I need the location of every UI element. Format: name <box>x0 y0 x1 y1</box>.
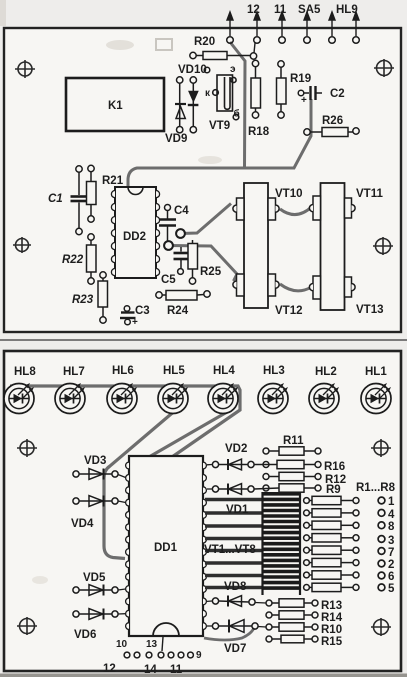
LED HL5 <box>158 383 188 414</box>
mount hole mid-right <box>373 237 393 255</box>
resistor R16 <box>254 460 321 468</box>
pin circle 1 <box>378 497 385 504</box>
resistor R8 <box>304 583 359 591</box>
svg-text:R10: R10 <box>321 624 342 636</box>
relay K1 <box>66 78 164 131</box>
IC DD2 <box>115 187 156 278</box>
transistor pair VT10/VT12 package <box>233 183 279 308</box>
lead DD1 to VD2 row1 <box>207 464 212 466</box>
diode VD2 row2 <box>212 484 254 495</box>
transistor VT9 <box>213 75 239 120</box>
resistor R22 <box>87 234 97 284</box>
capacitor C4 <box>159 205 176 242</box>
svg-text:VD10: VD10 <box>178 64 207 76</box>
svg-text:R11: R11 <box>283 435 304 447</box>
diode VD7 <box>212 620 258 633</box>
LED HL2 <box>309 383 339 414</box>
mount hole b2 bottom-left <box>17 617 37 635</box>
LED HL4 <box>208 383 238 414</box>
capacitor C2 <box>298 86 322 100</box>
svg-text:б: б <box>234 108 240 120</box>
svg-text:HL2: HL2 <box>315 366 337 378</box>
diode VD10 <box>188 77 199 133</box>
svg-text:VT1...VT8: VT1...VT8 <box>204 544 256 556</box>
svg-text:R25: R25 <box>200 266 222 278</box>
svg-text:VT11: VT11 <box>356 188 383 200</box>
svg-text:R16: R16 <box>324 461 345 473</box>
transistor pair VT11/VT13 package <box>309 183 355 310</box>
svg-text:VT13: VT13 <box>356 304 384 316</box>
resistor R12 <box>263 472 321 480</box>
mount hole mid-left <box>13 237 31 253</box>
diode VD6 <box>73 609 118 620</box>
svg-text:+: + <box>132 317 138 328</box>
solder pad node A <box>176 229 185 238</box>
svg-text:э: э <box>230 64 236 75</box>
lead DD1 to VD7 <box>207 625 212 627</box>
pin circle 6 <box>378 572 385 579</box>
resistor R21 <box>87 165 97 222</box>
svg-text:13: 13 <box>146 639 158 650</box>
DD1 notch <box>153 623 179 636</box>
svg-text:VT9: VT9 <box>209 120 230 132</box>
mount hole b2 top-right <box>371 439 391 457</box>
svg-text:3: 3 <box>388 535 394 547</box>
diode VD8 <box>212 596 255 607</box>
svg-text:VD7: VD7 <box>224 643 246 655</box>
svg-text:R22: R22 <box>62 254 84 266</box>
svg-text:R21: R21 <box>102 175 124 187</box>
resistor R19 <box>277 61 287 118</box>
DD1 pins right <box>203 462 206 629</box>
pin circle 7 <box>378 548 385 555</box>
lead DD1 pin 13 <box>162 637 163 651</box>
svg-text:HL8: HL8 <box>14 366 36 378</box>
svg-text:DD1: DD1 <box>154 542 178 554</box>
bottom scan strip <box>0 674 407 677</box>
lead VD7 to R10 <box>258 626 266 629</box>
mount hole top-left <box>15 60 35 78</box>
svg-text:C5: C5 <box>161 274 176 286</box>
resistor R24 <box>156 291 210 301</box>
svg-text:VD1: VD1 <box>226 504 249 516</box>
svg-text:VD9: VD9 <box>165 133 187 145</box>
resistor R20 <box>190 52 257 60</box>
pad row at board top <box>227 37 360 44</box>
capacitor C3 <box>120 306 136 325</box>
svg-text:9: 9 <box>196 650 202 661</box>
svg-text:12: 12 <box>247 4 260 16</box>
resistor R10 <box>266 623 318 631</box>
lead pad2 to R20 <box>254 43 255 53</box>
capacitor C1 <box>71 166 87 235</box>
svg-text:SA5: SA5 <box>298 4 321 16</box>
svg-text:HL5: HL5 <box>163 365 185 377</box>
svg-text:12: 12 <box>103 663 116 675</box>
wire: LED bus horizontal <box>10 386 240 457</box>
LED HL7 <box>55 383 85 414</box>
capacitor C5 <box>174 247 190 274</box>
resistor R2 <box>304 509 359 517</box>
resistor R9 <box>254 484 321 492</box>
svg-text:VT10: VT10 <box>275 188 303 200</box>
svg-text:HL4: HL4 <box>213 365 235 377</box>
svg-text:4: 4 <box>388 509 395 521</box>
svg-text:VD8: VD8 <box>224 581 247 593</box>
svg-text:VD3: VD3 <box>84 455 106 467</box>
resistor R11 <box>263 447 321 455</box>
wire: big pad C4 node to VT12 tab <box>169 246 238 282</box>
lead VD3 to DD1 <box>118 475 126 478</box>
diode VD5 <box>73 585 118 596</box>
svg-text:HL6: HL6 <box>112 365 134 377</box>
svg-text:VT12: VT12 <box>275 305 303 317</box>
resistor R1 <box>304 496 359 504</box>
svg-text:5: 5 <box>388 583 395 595</box>
LED HL8 <box>4 383 34 414</box>
svg-text:HL7: HL7 <box>63 366 85 378</box>
svg-text:HL9: HL9 <box>336 4 358 16</box>
svg-text:VD2: VD2 <box>225 443 247 455</box>
svg-text:11: 11 <box>170 664 183 676</box>
diode VD3 <box>73 469 118 480</box>
svg-text:VD5: VD5 <box>83 572 106 584</box>
wire: HL5 to VD3/VD4 column and DD1 <box>104 409 177 559</box>
svg-text:HL1: HL1 <box>365 366 387 378</box>
lead DD1 to VD8 <box>207 600 212 602</box>
svg-text:6: 6 <box>388 571 394 583</box>
resistor R14 <box>266 611 318 619</box>
wire: pad 12-line down to junction <box>230 42 245 168</box>
mount hole b2 top-left <box>17 439 37 457</box>
wire: big pad DD2 right to VT10 upper tab <box>181 204 232 234</box>
svg-text:C2: C2 <box>330 88 345 100</box>
svg-text:R18: R18 <box>248 126 270 138</box>
diode VD9 <box>175 77 186 133</box>
lead VD4 to DD1 <box>118 501 126 503</box>
svg-text:R20: R20 <box>194 36 215 48</box>
resistor R13 <box>266 599 318 607</box>
svg-text:C4: C4 <box>174 205 189 217</box>
wire: junction to C2/R26 node <box>245 99 312 168</box>
board 1 (upper PCB) <box>4 28 401 332</box>
svg-text:R14: R14 <box>321 612 343 624</box>
lead VD6 to DD1 <box>118 613 126 615</box>
pad row under DD1 <box>124 652 193 658</box>
DD1 pins left <box>126 462 129 629</box>
mount hole b2 bottom-right <box>371 618 391 636</box>
svg-text:R19: R19 <box>290 73 311 85</box>
pin circle 5 <box>378 584 385 591</box>
svg-text:R24: R24 <box>167 305 189 317</box>
diode VD4 <box>73 496 118 507</box>
LED HL6 <box>107 383 137 414</box>
mount hole top-right <box>374 59 394 77</box>
wire: horizontal net to DD2 pin1 <box>128 168 245 186</box>
pin circle 4 <box>378 510 385 517</box>
transistor block VT1...VT8 <box>263 492 301 595</box>
resistor R5 <box>304 546 359 554</box>
svg-text:+: + <box>301 95 307 106</box>
wire rows DD1 to VT block <box>205 500 263 588</box>
connection arrows to external <box>227 12 359 36</box>
resistor R3 <box>304 521 359 529</box>
wire: HL4 to DD1 <box>149 402 227 457</box>
resistor R18 <box>251 60 261 118</box>
resistor R7 <box>304 571 359 579</box>
resistor R23 <box>98 272 108 323</box>
svg-text:8: 8 <box>388 521 395 533</box>
svg-text:K1: K1 <box>108 100 123 112</box>
wire: DD1 to VD7 <box>204 628 254 640</box>
svg-text:14: 14 <box>144 664 157 676</box>
svg-text:C1: C1 <box>48 193 63 205</box>
svg-text:DD2: DD2 <box>123 231 146 243</box>
resistor R4 <box>304 534 359 542</box>
svg-text:VD6: VD6 <box>74 629 96 641</box>
photo separation line <box>0 339 407 341</box>
wire: VT12 right tab to VT13 left tab (lower) <box>280 284 312 291</box>
wire: VT10 right tab to VT11 left tab (upper) <box>280 207 312 215</box>
svg-text:1: 1 <box>388 496 395 508</box>
svg-text:7: 7 <box>388 547 394 559</box>
svg-text:10: 10 <box>116 639 128 650</box>
svg-text:11: 11 <box>274 4 287 16</box>
solder pad node B <box>164 241 173 250</box>
svg-text:R13: R13 <box>321 600 342 612</box>
svg-text:R23: R23 <box>72 294 94 306</box>
board 2 (lower PCB) <box>4 351 401 671</box>
svg-text:R9: R9 <box>326 484 341 496</box>
resistor R6 <box>304 558 359 566</box>
lead VD8 to R13 <box>255 602 266 605</box>
svg-text:HL3: HL3 <box>263 365 285 377</box>
pin circle 3 <box>378 536 385 543</box>
svg-text:R1...R8: R1...R8 <box>356 482 396 494</box>
svg-text:R26: R26 <box>322 115 343 127</box>
svg-text:VD4: VD4 <box>71 518 94 530</box>
lead VD5 to DD1 <box>118 589 126 590</box>
resistor R15 <box>266 635 318 643</box>
pin circle 2 <box>378 560 385 567</box>
LED HL1 <box>361 383 391 414</box>
diode VD2 row1 <box>212 459 254 470</box>
pin circle 8 <box>378 522 385 529</box>
svg-text:R15: R15 <box>321 636 343 648</box>
lead DD1 to VD2 row2 <box>207 488 212 490</box>
resistor R25 <box>188 240 198 284</box>
svg-text:C3: C3 <box>135 305 150 317</box>
LED HL3 <box>258 383 288 414</box>
svg-text:2: 2 <box>388 559 394 571</box>
scan artifacts (faint) <box>156 39 172 50</box>
resistor R26 <box>304 128 359 137</box>
IC DD1 <box>129 456 203 636</box>
